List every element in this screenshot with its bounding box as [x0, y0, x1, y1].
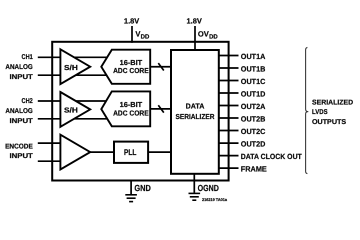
- wire OUT2A: [219, 105, 239, 107]
- wire ADC2 to serializer: [150, 108, 171, 110]
- svg-text:INPUT: INPUT: [10, 74, 34, 81]
- label ENCODE INPUT: [5, 144, 34, 160]
- svg-text:DATA: DATA: [186, 102, 205, 111]
- label CH2 ANALOG INPUT: [5, 98, 33, 125]
- svg-text:216219 TA01a: 216219 TA01a: [202, 197, 228, 202]
- svg-text:ADC CORE: ADC CORE: [113, 66, 149, 75]
- wire encode buffer to PLL: [90, 151, 114, 153]
- OGND pin stem: [193, 174, 195, 193]
- outer box LTC device: [52, 42, 228, 181]
- wire ENCODE input -: [38, 160, 62, 162]
- svg-text:INPUT: INPUT: [10, 118, 34, 125]
- svg-text:OUT2B: OUT2B: [241, 115, 266, 124]
- svg-text:ADC CORE: ADC CORE: [113, 108, 149, 117]
- wire CH1 input +: [38, 56, 110, 58]
- wire CH1 input -: [38, 74, 110, 76]
- svg-text:DATA CLOCK OUT: DATA CLOCK OUT: [241, 152, 302, 161]
- svg-text:VDD: VDD: [135, 30, 150, 41]
- svg-text:OUT1B: OUT1B: [241, 65, 266, 74]
- svg-text:1.8V: 1.8V: [187, 17, 202, 26]
- label SERIALIZED LVDS OUTPUTS: [312, 99, 353, 126]
- wire CH2 input +: [38, 100, 110, 102]
- ground symbol OGND: [189, 193, 201, 200]
- svg-text:SERIALIZER: SERIALIZER: [176, 112, 216, 121]
- svg-text:GND: GND: [134, 183, 151, 193]
- svg-text:OUT2D: OUT2D: [241, 140, 266, 149]
- svg-text:FRAME: FRAME: [241, 165, 267, 174]
- wire ENCODE input +: [38, 142, 62, 144]
- brace serialized outputs: [306, 47, 309, 173]
- output wires and labels: [219, 52, 302, 174]
- svg-text:CH1: CH1: [22, 54, 33, 61]
- amplifier S/H 2: [60, 92, 90, 127]
- wire OUT2B: [219, 117, 239, 119]
- supply line OVDD: [194, 26, 196, 51]
- svg-text:INPUT: INPUT: [10, 153, 34, 160]
- svg-text:S/H: S/H: [64, 63, 78, 72]
- svg-text:OVDD: OVDD: [198, 30, 219, 41]
- wire OUT1A: [219, 55, 239, 57]
- amplifier ENCODE buffer: [60, 135, 90, 170]
- wire OUT1C: [219, 80, 239, 82]
- svg-text:OUT1C: OUT1C: [241, 77, 266, 86]
- svg-text:OUT2C: OUT2C: [241, 127, 266, 136]
- wire OUT2D: [219, 142, 239, 144]
- svg-text:PLL: PLL: [124, 148, 136, 157]
- svg-text:OUTPUTS: OUTPUTS: [312, 119, 346, 126]
- data serializer block: [171, 50, 219, 174]
- ground symbol GND: [125, 195, 137, 202]
- amplifier S/H 1: [60, 49, 90, 84]
- svg-text:LVDS: LVDS: [312, 109, 328, 116]
- svg-text:SERIALIZED: SERIALIZED: [312, 99, 353, 106]
- svg-text:OUT1A: OUT1A: [241, 52, 266, 61]
- GND pin stem: [130, 181, 132, 195]
- supply line VDD: [131, 26, 133, 43]
- wire ADC1 to serializer: [150, 66, 171, 68]
- svg-text:OUT1D: OUT1D: [241, 90, 266, 99]
- svg-text:OUT2A: OUT2A: [241, 102, 266, 111]
- PLL block: [114, 142, 148, 163]
- svg-text:ANALOG: ANALOG: [5, 64, 33, 71]
- svg-text:1.8V: 1.8V: [124, 17, 139, 26]
- svg-text:ENCODE: ENCODE: [5, 144, 33, 151]
- svg-text:OGND: OGND: [198, 183, 219, 193]
- wire OUT1B: [219, 67, 239, 69]
- bus tick ADC1: [158, 63, 164, 70]
- label CH1 ANALOG INPUT: [5, 54, 33, 81]
- wire PLL to serializer: [148, 151, 171, 153]
- ADC core 1 (16-bit): [101, 50, 150, 84]
- wire OUT1D: [219, 92, 239, 94]
- svg-text:S/H: S/H: [64, 106, 78, 115]
- wire OUT2C: [219, 130, 239, 132]
- wire FRAME: [219, 167, 239, 169]
- wire CH2 input -: [38, 118, 110, 120]
- ADC core 2 (16-bit): [101, 91, 150, 126]
- bus tick ADC2: [158, 105, 164, 112]
- svg-text:ANALOG: ANALOG: [5, 108, 33, 115]
- wire DATA CLOCK OUT: [219, 155, 239, 157]
- svg-text:CH2: CH2: [22, 98, 33, 105]
